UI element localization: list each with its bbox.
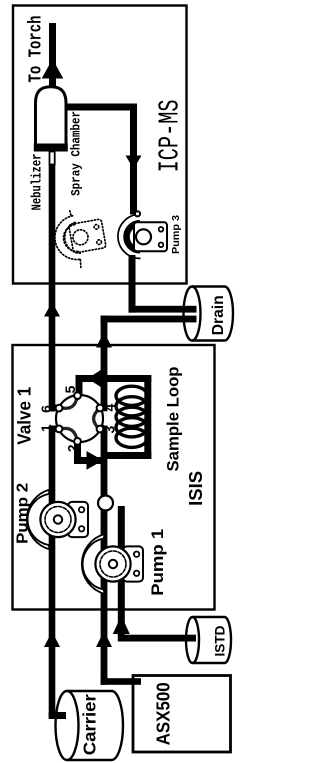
svg-text:4: 4	[102, 403, 118, 411]
svg-text:Drain: Drain	[210, 295, 227, 335]
svg-text:1: 1	[38, 424, 54, 432]
svg-text:ISIS: ISIS	[186, 471, 206, 506]
svg-text:Spray Chamber: Spray Chamber	[69, 111, 84, 196]
svg-text:Pump 2: Pump 2	[14, 483, 31, 544]
svg-text:2: 2	[64, 444, 80, 452]
svg-text:Nebulizer: Nebulizer	[30, 154, 45, 211]
svg-text:Valve 1: Valve 1	[14, 387, 34, 445]
svg-text:5: 5	[62, 385, 78, 393]
svg-text:Pump 1: Pump 1	[149, 529, 167, 596]
svg-text:To Torch: To Torch	[27, 16, 47, 83]
svg-text:3: 3	[101, 425, 117, 433]
svg-text:6: 6	[38, 405, 54, 413]
svg-text:ASX500: ASX500	[154, 682, 174, 745]
svg-text:Sample Loop: Sample Loop	[164, 367, 182, 472]
svg-text:ISTD: ISTD	[212, 626, 228, 657]
svg-text:ICP-MS: ICP-MS	[154, 99, 187, 172]
svg-text:Carrier: Carrier	[80, 694, 100, 755]
svg-text:Pump 3: Pump 3	[170, 215, 182, 254]
